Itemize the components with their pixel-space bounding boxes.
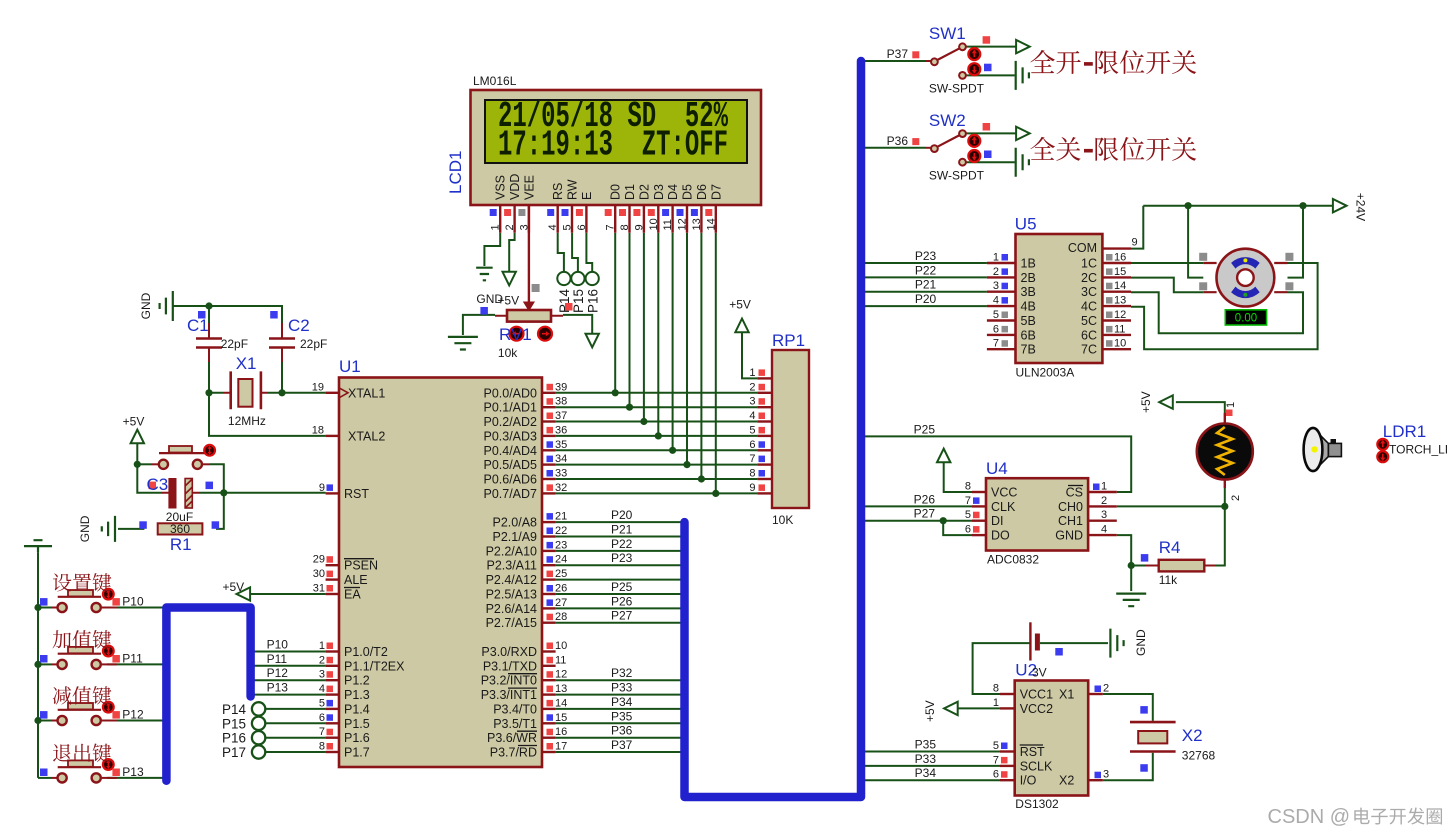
wire P20 bus to U5 pin4 — [861, 305, 987, 307]
wire P21 bus to U5 pin3 — [861, 291, 987, 293]
svg-text:4B: 4B — [1021, 300, 1036, 314]
torch lamp icon — [1316, 431, 1328, 469]
svg-text:P3.5/T1: P3.5/T1 — [493, 717, 537, 731]
wire P34 bus to U2 IO — [861, 779, 1000, 781]
wire button1 P10 to bus — [107, 607, 163, 609]
svg-text:7B: 7B — [1021, 343, 1036, 357]
power +5V RV1 — [586, 334, 599, 348]
svg-text:6: 6 — [749, 439, 755, 451]
svg-text:+5V: +5V — [1139, 391, 1153, 413]
svg-text:+5V: +5V — [223, 580, 245, 594]
wire RV1 left to ground — [463, 315, 495, 335]
svg-text:P2.6/A14: P2.6/A14 — [486, 602, 537, 616]
wire P25 bus to U4 CS — [861, 436, 1131, 492]
wire P10 bus to U1 pin1 — [254, 651, 326, 653]
svg-text:P3.4/T0: P3.4/T0 — [493, 702, 537, 716]
mcu U1 pin 32 P0.7/AD7 — [542, 492, 556, 494]
svg-text:4: 4 — [547, 224, 559, 230]
wire P2.4 U1 to bus — [556, 579, 681, 581]
junction rail left — [1185, 202, 1192, 209]
svg-text:P0.0/AD0: P0.0/AD0 — [483, 386, 537, 400]
svg-text:4: 4 — [993, 295, 999, 307]
wire P3.4 U1 to bus — [556, 708, 681, 710]
respack RP1 pin 5 — [757, 435, 772, 437]
terminal P16 lcd — [586, 272, 599, 285]
mcu U1 pin 21 P2.0/A8 — [542, 521, 556, 523]
wire button3 left — [38, 720, 52, 722]
svg-text:ALE: ALE — [344, 573, 368, 587]
svg-text:2: 2 — [504, 224, 516, 230]
ground symbol R1 — [102, 516, 115, 542]
lcd pin 7 D0 — [614, 205, 616, 233]
svg-text:8: 8 — [993, 683, 999, 695]
svg-text:RW: RW — [566, 179, 580, 200]
svg-text:12: 12 — [1114, 309, 1126, 321]
power +24V arrow — [1333, 199, 1347, 212]
wire U2 X1 to crystal — [1103, 694, 1153, 721]
svg-text:3B: 3B — [1021, 285, 1036, 299]
svg-text:GND: GND — [139, 292, 153, 319]
lcd pin 3 VEE — [528, 205, 530, 233]
push button 加值键 P11 — [52, 663, 58, 665]
svg-text:13: 13 — [1114, 295, 1126, 307]
rtc U2 pin 6 I/O — [1000, 779, 1015, 781]
svg-text:P35: P35 — [611, 709, 633, 723]
wire P3.2 U1 to bus — [556, 679, 681, 681]
wire P0.0 U1 to RP1 — [556, 392, 758, 394]
wire button1 left — [38, 607, 52, 609]
wire button4 P13 to bus — [107, 777, 163, 779]
lcd pin 12 D5 — [686, 205, 688, 233]
svg-text:P25: P25 — [611, 580, 633, 594]
svg-text:12: 12 — [555, 669, 567, 681]
wire button ground rail — [37, 552, 39, 778]
wire U5 2C to motor coil B — [1131, 278, 1203, 293]
lcd pin 11 D4 — [671, 205, 673, 233]
crystal X2 32768 — [1130, 722, 1176, 751]
wire P14 terminal to U1 pin5 — [265, 708, 326, 710]
wire reset button left — [137, 463, 151, 465]
svg-text:DI: DI — [991, 514, 1004, 528]
svg-text:P37: P37 — [611, 738, 633, 752]
svg-text:5: 5 — [993, 309, 999, 321]
svg-text:14: 14 — [555, 697, 567, 709]
svg-text:P1.6: P1.6 — [344, 731, 370, 745]
svg-text:P1.4: P1.4 — [344, 702, 370, 716]
svg-text:6: 6 — [965, 524, 971, 536]
svg-text:CS: CS — [1066, 486, 1083, 500]
lcd pin 9 D2 — [643, 205, 645, 233]
push button 设置键 P10 — [52, 607, 58, 609]
svg-text:33: 33 — [555, 468, 567, 480]
svg-text:P13: P13 — [267, 681, 289, 695]
mcu U1 body — [339, 378, 542, 768]
wire C2 bottom to X1 right — [281, 362, 283, 393]
svg-text:7: 7 — [965, 495, 971, 507]
svg-text:U5: U5 — [1015, 215, 1037, 234]
svg-text:P32: P32 — [611, 666, 633, 680]
mcu U1 pin 18 XTAL2 — [326, 435, 339, 437]
wire P2.3 U1 to bus — [556, 564, 681, 566]
respack RP1 pin 3 — [757, 406, 772, 408]
svg-text:10K: 10K — [772, 513, 793, 527]
adc U4 pin 5 DI — [972, 520, 986, 522]
svg-text:1C: 1C — [1081, 257, 1097, 271]
svg-text:D3: D3 — [652, 184, 666, 200]
wire P16 terminal to U1 pin7 — [265, 737, 326, 739]
wire SW1 upper throw to output arrow — [966, 46, 1016, 48]
power +5V U2 — [944, 702, 958, 715]
svg-text:P23: P23 — [611, 551, 633, 565]
driver U5 pin 5 5B — [987, 319, 1016, 321]
mcu U1 pin 16 P3.6/WR — [542, 737, 556, 739]
photoresistor LDR torch — [1224, 413, 1226, 424]
svg-text:+5V: +5V — [729, 298, 751, 312]
svg-text:10k: 10k — [498, 346, 518, 360]
svg-text:10: 10 — [648, 218, 660, 230]
svg-text:27: 27 — [555, 597, 567, 609]
push button 减值键 P12 — [52, 720, 58, 722]
junction CH0 LDR — [1221, 503, 1228, 510]
svg-text:P10: P10 — [267, 638, 289, 652]
svg-text:4: 4 — [1101, 524, 1107, 536]
wire X1 right to U1 XTAL1 — [268, 392, 326, 394]
lcd pin 4 RS — [557, 205, 559, 233]
wire P3.3 U1 to bus — [556, 694, 681, 696]
svg-text:P2.4/A12: P2.4/A12 — [486, 573, 537, 587]
svg-text:DS1302: DS1302 — [1015, 797, 1059, 811]
svg-text:14: 14 — [1114, 280, 1126, 292]
svg-text:2: 2 — [993, 266, 999, 278]
wire SW2 lower throw to ground — [966, 161, 1015, 163]
wire P35 bus to U2 RST — [861, 751, 1000, 753]
wire LCD D1 to P0.1 — [629, 233, 631, 408]
svg-text:GND: GND — [1055, 529, 1083, 543]
svg-text:P21: P21 — [611, 523, 633, 537]
adc U4 ADC0832 body — [986, 478, 1088, 550]
svg-text:18: 18 — [312, 424, 324, 436]
ground symbol U4 — [1116, 594, 1146, 607]
wire P2.0 U1 to bus — [556, 521, 681, 523]
wire battery negative to ground — [1040, 642, 1108, 644]
wire P0.3 U1 to RP1 — [556, 435, 758, 437]
wire R1 left to GND — [118, 528, 144, 530]
svg-text:P23: P23 — [915, 249, 937, 263]
svg-text:EA: EA — [344, 588, 361, 602]
svg-text:RST: RST — [344, 487, 369, 501]
wire +5V to reset button and C3 — [137, 444, 162, 493]
marker red square P15 — [565, 303, 573, 311]
wire P15 terminal to U1 pin6 — [265, 722, 326, 724]
wire P2.7 U1 to bus — [556, 622, 681, 624]
rtc U2 DS1302 body — [1015, 681, 1088, 796]
mcu U1 pin 24 P2.3/A11 — [542, 564, 556, 566]
svg-text:D5: D5 — [681, 184, 695, 200]
respack RP1 pin 8 — [757, 478, 772, 480]
mcu U1 pin 22 P2.1/A9 — [542, 535, 556, 537]
svg-text:C3: C3 — [147, 475, 169, 494]
svg-text:6: 6 — [993, 769, 999, 781]
wire P0.5 U1 to RP1 — [556, 464, 758, 466]
respack RP1 pin 7 — [757, 463, 772, 465]
svg-text:VEE: VEE — [522, 175, 536, 200]
ground symbol battery — [1110, 629, 1123, 658]
svg-text:7: 7 — [605, 224, 617, 230]
respack RP1 — [772, 350, 809, 508]
svg-text:P2.5/A13: P2.5/A13 — [486, 588, 537, 602]
svg-text:P27: P27 — [611, 609, 633, 623]
power +5V U4 — [937, 449, 950, 463]
svg-text:P1.0/T2: P1.0/T2 — [344, 645, 388, 659]
adc U4 pin 1 CS — [1088, 491, 1117, 493]
bus keypad P10-P13 — [166, 608, 250, 781]
svg-text:5C: 5C — [1081, 314, 1097, 328]
svg-text:P2.7/A15: P2.7/A15 — [486, 616, 537, 630]
svg-text:3: 3 — [1101, 509, 1107, 521]
terminal P15 lcd — [571, 272, 584, 285]
wire P26 bus to U4 CLK — [861, 505, 972, 507]
svg-text:5: 5 — [319, 697, 325, 709]
wire U5 1C to motor coil A — [1131, 262, 1203, 264]
svg-text:1: 1 — [993, 697, 999, 709]
svg-text:1: 1 — [319, 640, 325, 652]
svg-text:R4: R4 — [1159, 538, 1181, 557]
resistor R4 — [1159, 560, 1205, 572]
svg-text:C2: C2 — [288, 316, 310, 335]
driver U5 pin 6 6B — [987, 334, 1016, 336]
svg-text:P0.7/AD7: P0.7/AD7 — [483, 487, 537, 501]
wire LCD E to P16 terminal — [586, 233, 592, 272]
mcu U1 pin 9 RST — [326, 492, 339, 494]
svg-text:7: 7 — [993, 754, 999, 766]
svg-text:D2: D2 — [637, 184, 651, 200]
wire P33 bus to U2 SCLK — [861, 765, 1000, 767]
svg-text:5: 5 — [993, 740, 999, 752]
svg-text:+5V: +5V — [123, 415, 145, 429]
adc U4 pin 3 CH1 — [1088, 520, 1117, 522]
svg-text:2C: 2C — [1081, 271, 1097, 285]
junction RST — [220, 489, 227, 496]
svg-text:P3.7/RD: P3.7/RD — [490, 746, 537, 760]
battery 3V — [1029, 622, 1031, 660]
rtc U2 pin 1 VCC2 — [1000, 707, 1015, 709]
wire LCD VSS to ground — [484, 233, 500, 266]
svg-text:P16: P16 — [586, 289, 601, 313]
svg-text:P16: P16 — [222, 731, 246, 746]
svg-text:RST: RST — [1020, 745, 1045, 759]
mcu U1 pin 17 P3.7/RD — [542, 751, 556, 753]
svg-text:SW-SPDT: SW-SPDT — [929, 82, 985, 96]
wire P2.5 U1 to bus — [556, 593, 681, 595]
svg-text:2: 2 — [319, 654, 325, 666]
wire P27 bus to U4 DI — [861, 520, 972, 522]
wire U4 DI to DO tie — [943, 521, 972, 535]
wire LCD RS to P14 terminal — [558, 233, 564, 272]
svg-text:P0.1/AD1: P0.1/AD1 — [483, 401, 537, 415]
adc U4 pin 4 GND — [1088, 534, 1117, 536]
svg-text:2: 2 — [1230, 495, 1242, 501]
mcu U1 pin 8 P1.7 — [326, 751, 339, 753]
svg-text:3: 3 — [749, 396, 755, 408]
svg-text:23: 23 — [555, 539, 567, 551]
wire LCD D3 to P0.3 — [657, 233, 659, 436]
lcd pin 1 VSS — [499, 205, 501, 233]
svg-text:SW1: SW1 — [929, 24, 966, 43]
svg-text:ADC0832: ADC0832 — [987, 553, 1039, 567]
respack RP1 pin 1 — [757, 377, 772, 379]
rtc U2 pin 5 RST — [1000, 750, 1015, 752]
svg-text:P26: P26 — [914, 492, 936, 506]
mcu U1 pin 27 P2.6/A14 — [542, 607, 556, 609]
svg-text:XTAL1: XTAL1 — [348, 386, 385, 400]
svg-text:1B: 1B — [1021, 257, 1036, 271]
svg-text:21: 21 — [555, 511, 567, 523]
svg-text:LDR1: LDR1 — [1383, 422, 1426, 441]
svg-text:P15: P15 — [571, 289, 586, 313]
svg-text:7C: 7C — [1081, 343, 1097, 357]
svg-text:SCLK: SCLK — [1020, 759, 1053, 773]
svg-text:RV1: RV1 — [499, 325, 532, 344]
svg-text:13: 13 — [691, 218, 703, 230]
wire P37 bus to SW1 — [861, 60, 926, 62]
svg-text:2: 2 — [1101, 495, 1107, 507]
svg-text:P11: P11 — [122, 651, 143, 665]
wire LCD D2 to P0.2 — [643, 233, 645, 422]
svg-text:PSEN: PSEN — [344, 559, 378, 573]
svg-text:U1: U1 — [339, 357, 361, 376]
svg-text:9: 9 — [1132, 237, 1138, 249]
svg-text:22pF: 22pF — [221, 337, 248, 351]
lcd LCD1 LM016L body — [471, 90, 762, 205]
bus main P2x P3x — [685, 61, 862, 797]
wire SW1 lower throw to ground — [966, 74, 1015, 76]
svg-text:1: 1 — [749, 367, 755, 379]
mcu U1 pin 33 P0.6/AD6 — [542, 478, 556, 480]
mcu U1 pin 15 P3.5/T1 — [542, 722, 556, 724]
svg-text:11: 11 — [1114, 323, 1125, 335]
svg-text:DO: DO — [991, 529, 1010, 543]
driver U5 pin 13 4C — [1102, 305, 1131, 307]
wire LCD D0 to P0.0 — [614, 233, 616, 393]
svg-text:12: 12 — [677, 218, 689, 230]
wire LCD D6 to P0.6 — [700, 233, 702, 479]
svg-text:12MHz: 12MHz — [228, 414, 266, 428]
wire P23 bus to U5 pin1 — [861, 262, 987, 264]
svg-text:24: 24 — [555, 554, 567, 566]
wire C1 top drop — [208, 306, 210, 323]
wire U4 CH0 to LDR bottom — [1117, 505, 1225, 507]
svg-text:28: 28 — [555, 611, 567, 623]
wire P0.7 U1 to RP1 — [556, 492, 758, 494]
mcu U1 pin 26 P2.5/A13 — [542, 593, 556, 595]
svg-text:D4: D4 — [666, 184, 680, 200]
wire U4 VCC to +5V — [944, 462, 972, 492]
svg-text:P36: P36 — [887, 134, 909, 148]
svg-text:SW2: SW2 — [929, 111, 966, 130]
svg-text:P3.2/INT0: P3.2/INT0 — [481, 674, 537, 688]
svg-text:16: 16 — [1114, 252, 1126, 264]
switch SW1 SPDT — [926, 60, 931, 62]
svg-text:4: 4 — [749, 410, 755, 422]
wire P36 bus to SW2 — [861, 147, 926, 149]
svg-text:CLK: CLK — [991, 500, 1016, 514]
svg-text:13: 13 — [555, 683, 567, 695]
svg-text:6: 6 — [319, 712, 325, 724]
svg-text:P33: P33 — [611, 681, 633, 695]
svg-text:P36: P36 — [611, 724, 633, 738]
svg-text:P2.1/A9: P2.1/A9 — [493, 530, 538, 544]
wire P0.1 U1 to RP1 — [556, 406, 758, 408]
respack RP1 pin 9 — [757, 492, 772, 494]
mcu U1 pin 29 PSEN — [326, 564, 339, 566]
svg-text:36: 36 — [555, 424, 567, 436]
svg-text:VDD: VDD — [508, 174, 522, 200]
lcd pin 8 D1 — [628, 205, 630, 233]
svg-text:16: 16 — [555, 726, 567, 738]
svg-text:RS: RS — [551, 183, 565, 200]
svg-text:2: 2 — [749, 381, 755, 393]
svg-text:D7: D7 — [709, 184, 723, 200]
junction R4 left — [1128, 562, 1135, 569]
svg-text:ULN2003A: ULN2003A — [1016, 366, 1075, 380]
driver U5 pin 1 1B — [987, 262, 1016, 264]
wire +24V rail — [1143, 205, 1333, 207]
svg-text:RP1: RP1 — [772, 331, 805, 350]
svg-text:P12: P12 — [267, 666, 289, 680]
wire SW2 upper throw to output arrow — [966, 132, 1016, 134]
output arrow SW2 — [1016, 127, 1030, 140]
svg-text:P25: P25 — [914, 422, 936, 436]
switch SW2 SPDT — [926, 147, 931, 149]
mcu U1 pin 36 P0.3/AD3 — [542, 435, 556, 437]
svg-text:3V: 3V — [1032, 665, 1047, 679]
mcu U1 pin 5 P1.4 — [326, 708, 339, 710]
push button 退出键 P13 — [52, 777, 58, 779]
label 设置键 — [53, 573, 112, 591]
wire reset button right down — [210, 464, 224, 529]
svg-text:SW-SPDT: SW-SPDT — [929, 168, 985, 182]
adc U4 pin 2 CH0 — [1088, 505, 1117, 507]
lcd pin 5 RW — [571, 205, 573, 233]
wire LDR top to +5V — [1176, 402, 1225, 413]
wire R4 left stub — [1131, 565, 1146, 567]
svg-text:P22: P22 — [611, 537, 633, 551]
svg-text:P1.3: P1.3 — [344, 688, 370, 702]
mcu U1 clock input marker — [339, 388, 348, 398]
svg-text:31: 31 — [313, 583, 325, 595]
label 全关-限位开关 — [1030, 137, 1196, 161]
power +5V reset — [131, 430, 144, 444]
svg-text:360: 360 — [170, 522, 190, 536]
ground symbol button rail — [24, 540, 52, 552]
ground symbol RV1 — [448, 337, 478, 350]
mcu U1 pin 3 P1.2 — [326, 679, 339, 681]
svg-text:P20: P20 — [915, 292, 937, 306]
svg-text:1: 1 — [1101, 481, 1107, 493]
rtc U2 pin 8 VCC1 — [1000, 693, 1015, 695]
mcu U1 pin 11 P3.1/TXD — [542, 665, 556, 667]
svg-text:7: 7 — [993, 338, 999, 350]
label 加值键 — [53, 630, 112, 648]
wire battery positive to U2 VCC1 — [973, 643, 1031, 694]
mcu U1 pin 38 P0.1/AD1 — [542, 406, 556, 408]
wire P0.6 U1 to RP1 — [556, 478, 758, 480]
wire LDR bottom stub — [1224, 488, 1226, 506]
svg-text:8: 8 — [319, 741, 325, 753]
svg-text:7: 7 — [749, 453, 755, 465]
svg-text:3: 3 — [993, 280, 999, 292]
junction rail right — [1299, 202, 1306, 209]
